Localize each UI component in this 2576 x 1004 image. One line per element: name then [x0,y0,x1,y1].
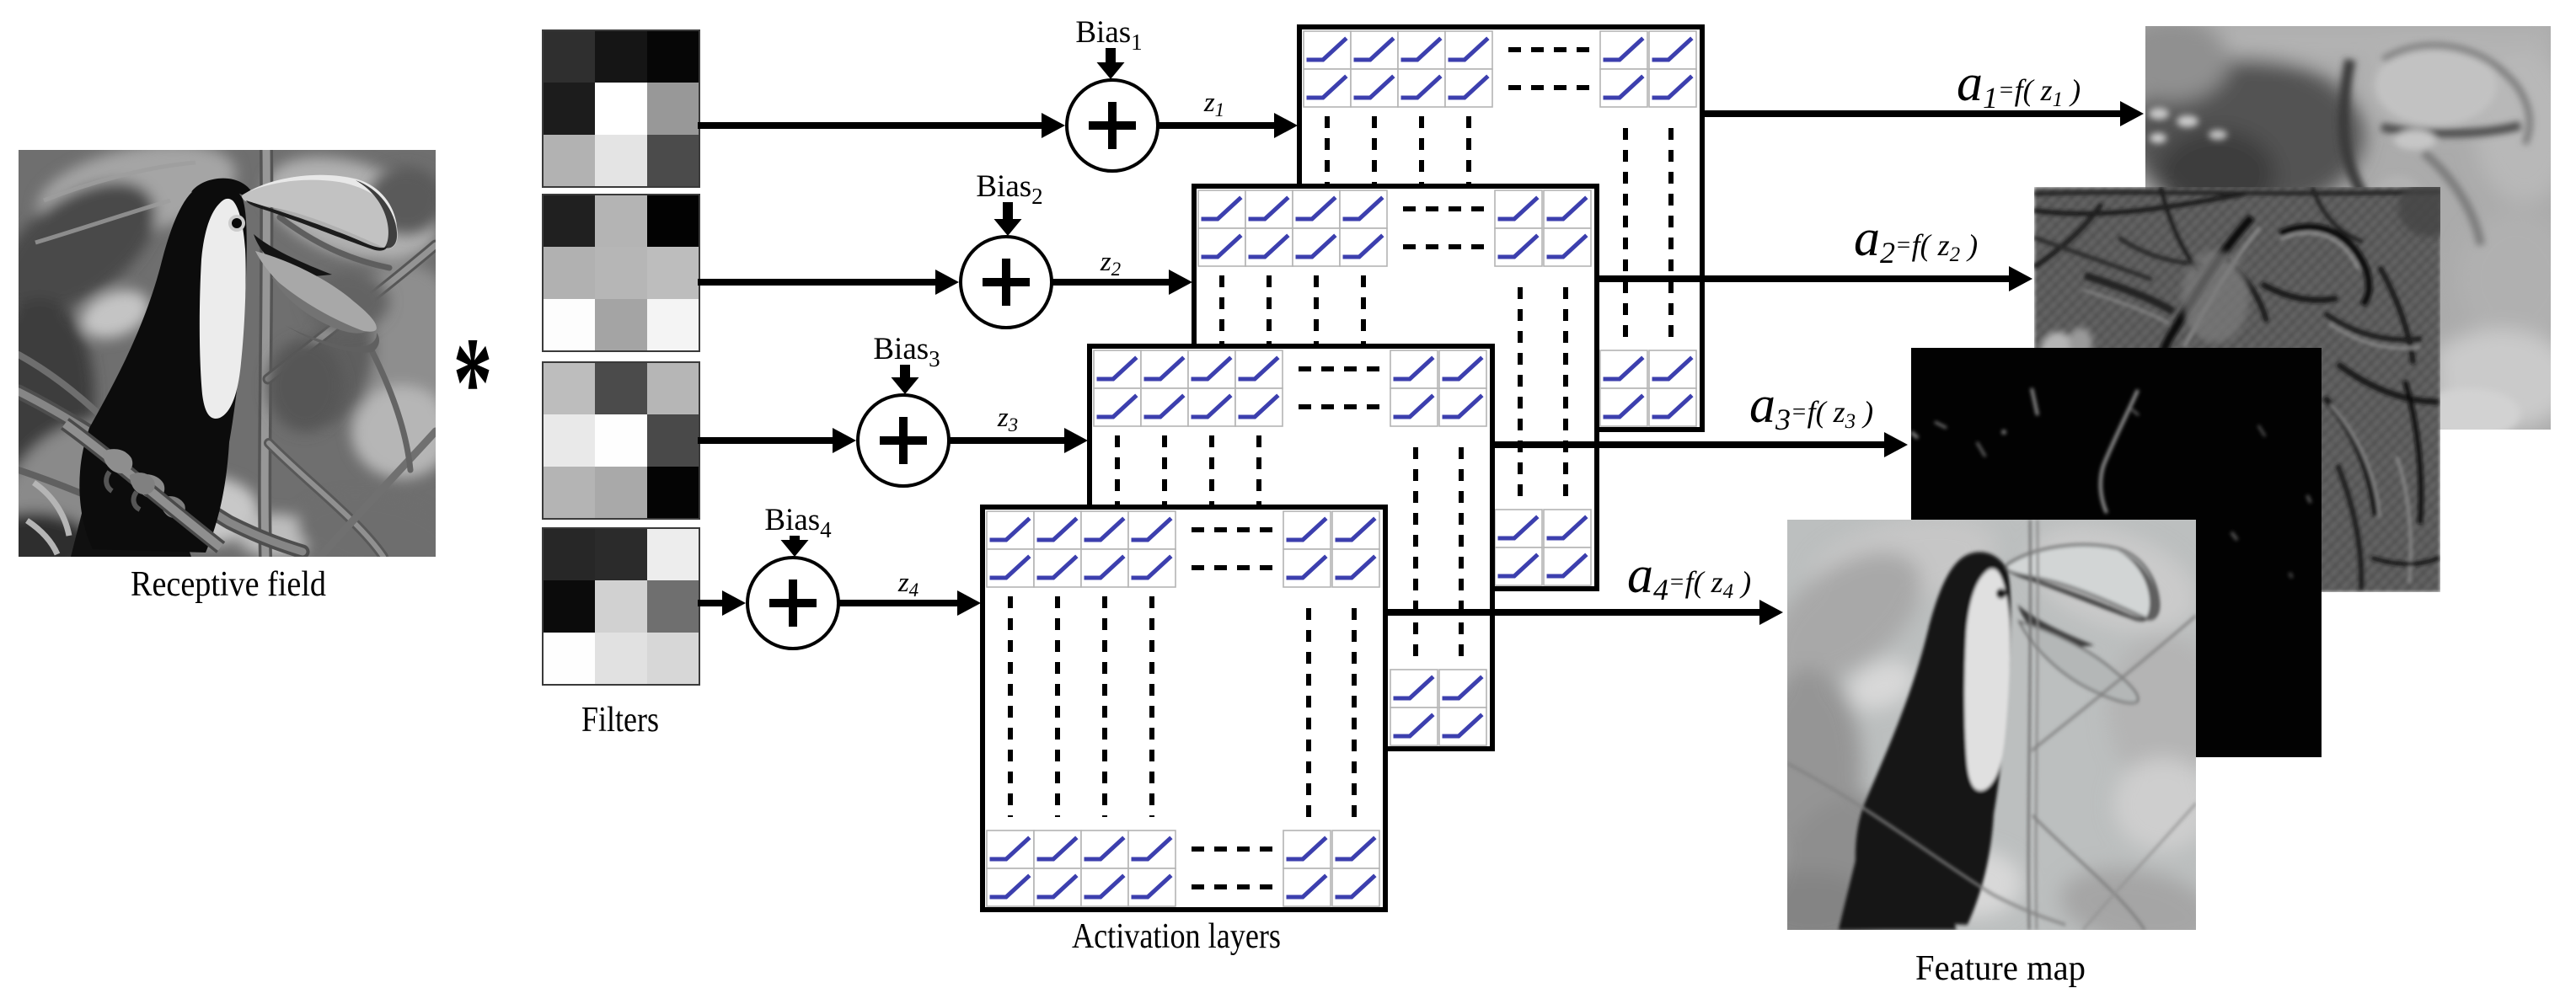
arrow z2 adder2 to box2 [1052,270,1192,295]
arrow a1 box1 to feature map 1 [1702,101,2144,126]
box 1 bottom-right ReLU cells [1600,350,1696,426]
arrow a4 box4 to feature map 4 [1385,600,1783,625]
wire filter4 to adder4 [698,590,746,616]
box 2 left vertical dashed lines [1222,275,1363,496]
wire filter3 to adder3 [698,428,856,453]
box 4 bottom-right ReLU cells [1283,830,1379,906]
arrow a3 box3 to feature map 3 [1492,432,1908,457]
svg-text:z2: z2 [1100,247,1121,280]
svg-text:z3: z3 [997,403,1018,435]
svg-text:a2=f( z2 ): a2=f( z2 ) [1854,210,1978,270]
convolution asterisk [453,312,493,454]
activation layer box 3 [1090,346,1492,749]
box 4 right vertical dashed lines [1309,608,1354,827]
svg-text:a1=f( z1 ): a1=f( z1 ) [1957,55,2081,115]
box 3 top-left ReLU cells [1094,350,1283,426]
filter 1 (3x3 kernel) [543,30,700,188]
arrow Bias3 to adder3 [892,365,919,394]
arrow z3 adder3 to box3 [949,428,1088,453]
box 2 right vertical dashed lines [1520,287,1566,506]
box 3 top ellipsis dashes [1299,369,1383,407]
box 1 left vertical dashed lines [1327,116,1469,337]
box 4 top ellipsis dashes [1192,530,1276,568]
box 3 top-right ReLU cells [1390,350,1486,426]
arrow z4 adder4 to box4 [838,590,981,616]
toucan bird [27,163,398,557]
activation layer box 2 [1194,186,1597,589]
arrow Bias2 to adder2 [994,202,1022,236]
adder circle 3 [858,395,949,486]
feature map 3 (a3 output, nearly black) [1911,348,2322,757]
svg-text:Feature map: Feature map [1915,949,2086,988]
box 4 bottom ellipsis dashes [1192,849,1276,887]
box 2 bottom-left ReLU cells [1198,510,1387,585]
box 2 bottom ellipsis dashes [1403,528,1487,566]
wire filter2 to adder2 [698,270,959,295]
adder circle 4 [747,558,838,649]
feature map 2 (a2 output, dark ripple texture) [2034,179,2462,592]
box 3 bottom-right ReLU cells [1390,670,1486,745]
box 2 top ellipsis dashes [1403,209,1487,247]
svg-text:a4=f( z4 ): a4=f( z4 ) [1627,547,1751,606]
box 1 top ellipsis dashes [1508,50,1593,88]
svg-text:Receptive field: Receptive field [131,565,326,604]
box 3 right vertical dashed lines [1416,447,1461,666]
arrow Bias4 to adder4 [781,536,809,557]
svg-text:Filters: Filters [581,701,659,740]
wire filter1 to adder1 [698,113,1065,138]
svg-text:*: * [453,312,493,454]
box 3 bottom-left ReLU cells [1094,670,1283,745]
box 2 top-left ReLU cells [1198,190,1387,266]
box 1 bottom ellipsis dashes [1508,369,1593,407]
activation layer box 4 [983,507,1385,910]
box 1 top-right ReLU cells [1600,31,1696,107]
receptive field image (toucan photo) [0,128,463,587]
svg-text:Activation layers: Activation layers [1072,917,1281,956]
box 4 bottom-left ReLU cells [987,830,1176,906]
box 1 right vertical dashed lines [1625,128,1671,347]
arrow Bias1 to adder1 [1097,48,1125,79]
svg-text:z4: z4 [897,568,918,601]
svg-text:z1: z1 [1203,88,1224,120]
adder circle 1 [1067,80,1158,171]
box 4 left vertical dashed lines [1010,596,1152,817]
filter 3 (3x3 kernel) [543,362,700,520]
box 1 bottom-left ReLU cells [1304,350,1492,426]
box 2 top-right ReLU cells [1495,190,1591,266]
svg-text:a3=f( z3 ): a3=f( z3 ) [1749,376,1873,436]
arrow z1 adder1 to box1 [1158,113,1298,138]
box 3 left vertical dashed lines [1117,435,1259,656]
filter 4 (3x3 kernel) [543,528,700,686]
box 4 top-right ReLU cells [1283,511,1379,587]
box 4 top-left ReLU cells [987,511,1176,587]
box 2 bottom-right ReLU cells [1495,510,1591,585]
feature map 4 (a4 output, blurred bright toucan) [1746,502,2223,960]
box 1 top-left ReLU cells [1304,31,1492,107]
filter 2 (3x3 kernel) [543,195,700,352]
arrow a2 box2 to feature map 2 [1596,266,2032,291]
box 3 bottom ellipsis dashes [1299,688,1383,726]
activation layer box 1 [1299,27,1702,430]
feature map 1 (a1 output, soft gray edge map) [2112,18,2575,439]
adder circle 2 [961,237,1052,328]
